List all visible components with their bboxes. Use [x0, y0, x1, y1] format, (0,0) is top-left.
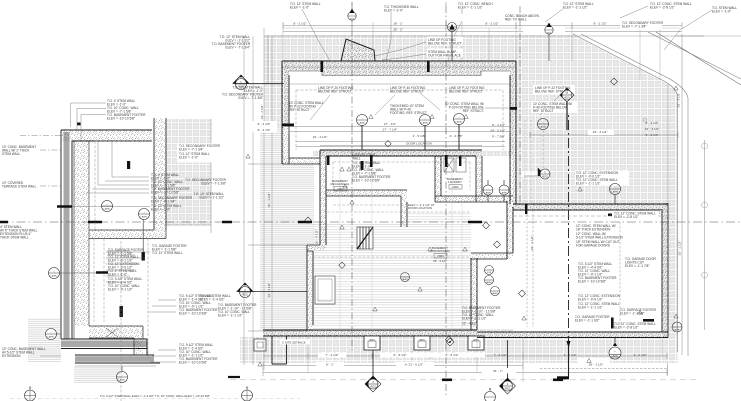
wall: garage east	[662, 203, 668, 338]
text: detail right stack 2	[179, 343, 218, 365]
text: detail secondary footer	[151, 196, 193, 212]
text: left gap blocks	[185, 178, 227, 186]
svg-text:STEM WALL BUMP-OUT FOR FIREPLA: STEM WALL BUMP-OUT FOR FIREPLACE	[428, 50, 461, 58]
wall: basement north	[320, 150, 482, 156]
wall: garage west	[507, 201, 513, 259]
svg-text:BASEMENTLAUNDRY: BASEMENTLAUNDRY	[447, 177, 463, 184]
basement north exterior dim row	[320, 145, 482, 147]
left column rotated dims	[248, 36, 307, 331]
detail: heavy leader dashes	[57, 207, 108, 273]
svg-text:4501: 4501	[564, 96, 570, 100]
sheet bottom dashed line	[10, 398, 300, 400]
grid line vertical B (x=446)	[445, 6, 447, 395]
svg-text:LINE OF P-20 FOOTINGBELOW, REF: LINE OF P-20 FOOTINGBELOW, REF. STRUCT	[318, 86, 354, 94]
svg-text:LABEL: LABEL	[48, 336, 56, 339]
svg-text:BASEMENT(UNFINISHED): BASEMENT(UNFINISHED)	[430, 246, 450, 253]
small diamonds scattered	[305, 78, 618, 343]
text: wing dims	[313, 122, 463, 146]
text: bottom dims	[316, 353, 610, 374]
extension lines left column	[244, 28, 272, 370]
bottom dimension strings	[263, 353, 667, 376]
wing interior footing lines	[289, 84, 510, 150]
text: detail right stack 1	[179, 294, 218, 316]
wall: garage step (east jog)	[471, 253, 513, 259]
svg-text:LABEL: LABEL	[486, 281, 493, 284]
svg-text:LABEL: LABEL	[419, 339, 426, 342]
wall: basement west upper	[320, 150, 326, 245]
gridline horizontal main (y=222)	[0, 214, 741, 223]
wall: wing top stem wall w/ stipple band	[282, 61, 516, 76]
detail wall: inner stipple band vertical (outer system)	[74, 141, 89, 339]
marker: bottom diamond 4/4501 x=373	[365, 350, 381, 392]
svg-text:LABEL: LABEL	[612, 191, 620, 194]
top boundary line	[264, 35, 741, 37]
label circle basement	[401, 273, 410, 282]
label circles laundry pair	[483, 180, 493, 202]
wall: wing west	[282, 61, 289, 164]
svg-text:LABEL: LABEL	[141, 216, 149, 219]
label circle right weave	[538, 119, 549, 130]
wall: laundry south / garage connector	[435, 196, 513, 202]
svg-text:29' - 3 1/2": 29' - 3 1/2"	[677, 93, 681, 108]
svg-text:29' - 3 1/4": 29' - 3 1/4"	[593, 130, 608, 134]
dashed leader circle-to-flag right side	[542, 130, 544, 168]
north circle bottom right	[485, 387, 496, 401]
svg-text:LINE OF P-22 FOOTINGBELOW, REF: LINE OF P-22 FOOTINGBELOW, REF. STRUCT	[535, 86, 571, 94]
wall: garage south	[477, 332, 668, 338]
svg-text:LABEL: LABEL	[422, 122, 430, 125]
heavy door jamb bars	[282, 61, 654, 329]
label circle detail corner	[46, 329, 62, 340]
hatch: basement floor lines	[313, 212, 471, 330]
text: garage elevations	[578, 262, 617, 284]
marker: diamond callout near fireplace	[448, 23, 457, 62]
section line vertical (x=568)	[568, 102, 570, 372]
svg-text:T.O. 9-1/2" STEM WALL ELEV =: T.O. 9-1/2" STEM WALL ELEV = -1'-4 9/2" …	[100, 394, 210, 398]
detail wall: outer conc wall gray core vertical	[61, 130, 72, 339]
faint extension lines through basement	[313, 156, 471, 330]
marker: bottom diamond 3/4501 x=507	[500, 340, 516, 394]
svg-text:LINE OF P-40 FOOTINGBELOW, REF: LINE OF P-40 FOOTINGBELOW, REF. STRUCT	[390, 86, 426, 94]
text: basement mech room	[352, 153, 375, 161]
svg-text:N: N	[29, 386, 31, 390]
north circle bottom center	[242, 386, 253, 401]
wall: wing west to basement jog	[282, 158, 320, 164]
text: far left block 3	[0, 225, 38, 240]
marker: section diamond 2/4501 top right	[560, 88, 574, 130]
svg-text:BASEMENTMECHANICAL: BASEMENTMECHANICAL	[331, 179, 350, 186]
label circle wing 3	[454, 114, 465, 151]
svg-text:16' - 4 1/2": 16' - 4 1/2"	[315, 230, 319, 245]
detail wall: jog band horizontal	[89, 230, 166, 239]
detail: leaders lower text stack	[106, 252, 176, 362]
basement interior dashed lines	[313, 162, 471, 257]
label circle wing 1	[357, 115, 368, 151]
svg-text:LABEL: LABEL	[359, 122, 367, 125]
pilaster P3 on south wall	[468, 336, 484, 350]
label circles set	[49, 114, 683, 383]
svg-text:LABEL: LABEL	[402, 278, 409, 281]
property line bottom (y=375)	[228, 377, 700, 380]
text: right weave block	[576, 171, 619, 186]
svg-text:LABEL: LABEL	[473, 339, 480, 342]
text: detail secondary footer on weave	[177, 144, 221, 163]
extension verticals through top band	[283, 22, 660, 80]
svg-text:LABEL: LABEL	[51, 275, 59, 278]
deck pier on terrace south wall	[254, 339, 266, 351]
text: basement footer block right	[462, 306, 501, 326]
diamond between pilasters	[446, 338, 454, 346]
svg-text:2003: 2003	[437, 254, 444, 258]
wall: basement east lower	[471, 258, 477, 330]
svg-text:19' - 2 1/2": 19' - 2 1/2"	[260, 105, 264, 120]
label circles garage fob stack	[485, 266, 494, 275]
marker: spot elevation dome below garage	[609, 338, 621, 360]
detail: small cross mark	[106, 328, 118, 337]
svg-text:LABEL: LABEL	[674, 329, 682, 332]
text: wing footing labels left low	[200, 294, 231, 302]
wall: window well on west wall	[315, 276, 335, 304]
svg-text:LABEL: LABEL	[540, 126, 548, 129]
svg-text:N: N	[246, 386, 248, 390]
wall: fireplace bump-out	[341, 39, 375, 61]
text: detail garage footer	[152, 244, 187, 255]
svg-text:LABEL: LABEL	[456, 121, 464, 124]
white-out: garage interior	[513, 209, 662, 333]
svg-text:LABEL: LABEL	[501, 192, 509, 195]
svg-text:8' - 4 1/4"34' - 3 1/4"9' - 7: 8' - 4 1/4"34' - 3 1/4"9' - 7 5/8"	[490, 123, 505, 139]
svg-text:32' - 1 1/2": 32' - 1 1/2"	[678, 241, 682, 256]
terrace SW wall extension below	[272, 336, 287, 364]
stair block	[357, 227, 373, 249]
svg-text:2001: 2001	[337, 187, 344, 191]
text: laundry room	[447, 177, 463, 189]
text: top-left block 2	[222, 86, 264, 101]
pilaster P1 on south wall	[364, 336, 380, 350]
svg-text:61' - 1": 61' - 1"	[493, 369, 503, 373]
faint dashed verticals in weave near garage door	[525, 120, 531, 204]
text: detail mid stack	[151, 173, 190, 195]
marker: flag at bottom-left (2/4501)	[237, 283, 307, 298]
text: setback	[280, 340, 310, 345]
tiny warning triangles	[246, 86, 678, 366]
label circle garage upper	[610, 184, 621, 205]
svg-text:N: N	[489, 387, 491, 391]
text: garage wall notes	[576, 224, 623, 248]
text: far left block 2	[2, 181, 37, 189]
marker: top flag x=549	[545, 23, 553, 62]
detail: dashed inner rect	[94, 141, 152, 401]
bottom extension verticals	[308, 336, 662, 382]
text: wing footing labels	[318, 86, 354, 94]
svg-text:26' - 4 1/2": 26' - 4 1/2"	[433, 259, 447, 263]
wall: mech room east step	[401, 196, 407, 227]
hatch: terrace horizontal lines left of plan	[260, 127, 314, 330]
text: basement footer block left	[218, 303, 257, 318]
marker: flag-left 1/4501 right side	[524, 168, 550, 179]
white-out: laundry-garage gap	[477, 156, 513, 329]
svg-text:2' SITE SETBACK: 2' SITE SETBACK	[282, 341, 306, 345]
white patches under annotations on weave	[427, 27, 629, 186]
marker: flag 1/4501 left of wing	[233, 75, 284, 90]
grid line vertical C (x=520)	[519, 6, 521, 204]
detail wall: top horizontal	[61, 130, 152, 141]
horizontal dim right (29'-3 1/4")	[530, 132, 678, 138]
text: bottom row under detail	[100, 394, 210, 398]
top secondary line	[283, 27, 680, 29]
detail wall: jog right lower	[89, 326, 143, 338]
wall: wing east	[510, 61, 516, 204]
svg-text:LABEL: LABEL	[485, 192, 493, 195]
svg-text:28' - 1 1/2": 28' - 1 1/2"	[589, 363, 604, 367]
svg-text:4501: 4501	[242, 293, 248, 297]
detail: leader lines to left texts	[20, 103, 150, 255]
white-out: wing interior	[289, 75, 510, 151]
text: garage extension	[578, 294, 621, 310]
detail wall: upper right vertical stipple band	[154, 118, 166, 230]
text: far left block 1	[2, 145, 36, 156]
svg-text:2002: 2002	[452, 185, 459, 189]
text: top annotations row	[290, 2, 321, 10]
svg-text:LABEL: LABEL	[119, 379, 127, 382]
heavy bars on bottom property line	[442, 379, 563, 382]
text: basement room tag	[430, 246, 450, 263]
white-out: left terrace zone	[244, 127, 313, 331]
detail wall: lower right vertical band	[134, 326, 143, 355]
marker: top flag x=352	[348, 9, 356, 21]
text: stair elev note	[408, 203, 435, 210]
text: garage door	[625, 257, 657, 268]
wall: laundry west partition	[435, 156, 441, 202]
svg-text:LABEL: LABEL	[492, 292, 499, 295]
text: garage bottom notes	[575, 315, 610, 323]
text: detail lower stack	[108, 248, 145, 292]
wall: mech room south partition	[326, 190, 407, 196]
label circle wing 2	[420, 115, 431, 151]
detail wall: second bottom band	[75, 355, 160, 363]
wall: basement west jog	[307, 245, 326, 251]
svg-text:4501: 4501	[505, 387, 511, 391]
text: garage stem wall on gridline	[612, 211, 658, 220]
top dimension string 1	[283, 22, 682, 32]
hatch: driveway weave (paving)	[240, 35, 678, 363]
top edge tick lines above plan	[352, 2, 446, 6]
svg-text:4501: 4501	[350, 19, 356, 21]
label circles left detail	[102, 201, 113, 212]
wing interior dim lines	[289, 123, 510, 147]
detail wall: bottom edge line	[75, 365, 156, 367]
right dimension vertical lines	[668, 34, 705, 375]
road diagonal lines top right	[573, 32, 741, 356]
svg-text:4501: 4501	[542, 175, 548, 179]
wall: basement west lower	[307, 245, 313, 331]
grid line vertical A (x=352)	[351, 2, 353, 350]
text: top dims	[293, 22, 606, 32]
wall: garage north	[513, 204, 668, 210]
text: 29-3 dims right	[593, 130, 608, 134]
wall: laundry east	[476, 156, 482, 202]
wall: basement/terrace south	[263, 330, 477, 336]
label circle garage bottom right	[672, 322, 682, 332]
marker: section line end x=568 with heavy bar	[557, 340, 571, 379]
detail heavy bars	[77, 123, 145, 318]
svg-text:LABEL: LABEL	[104, 208, 112, 211]
text: top-left block 1	[212, 35, 251, 50]
dimension circles right edge	[643, 118, 708, 278]
svg-text:LABEL: LABEL	[612, 355, 620, 358]
leader lines wing footings	[310, 93, 560, 120]
svg-text:LABEL: LABEL	[369, 339, 376, 342]
north circle bottom left	[25, 386, 36, 401]
detail hatch: terrace weave strip	[166, 119, 211, 233]
leader lines top annotations	[302, 6, 712, 61]
garage interior lines	[513, 210, 662, 327]
white-out: basement interior	[312, 156, 477, 330]
laundry appliance boxes	[444, 158, 466, 172]
svg-text:10' - 1 1/2": 10' - 1 1/2"	[267, 193, 271, 208]
svg-text:4501: 4501	[370, 385, 376, 389]
detail hatch: terrace corner	[28, 318, 120, 383]
pilaster P2 on south wall	[414, 336, 430, 350]
svg-text:LINE OF P-22 FOOTINGBELOW, REF: LINE OF P-22 FOOTINGBELOW, REF. STRUCT	[449, 86, 485, 94]
text: far left block 4	[2, 347, 61, 358]
text: detail top stack	[107, 99, 146, 121]
svg-text:ELEV = -1'-1 1/2" ATDOOR LOCAT: ELEV = -1'-1 1/2" ATDOOR LOCATION	[408, 203, 435, 210]
detail wall: outer gray core bottom L	[61, 339, 147, 355]
svg-text:16' - 4 1/2": 16' - 4 1/2"	[267, 283, 271, 298]
svg-text:FOB: FOB	[487, 272, 492, 274]
svg-text:32' - 1 1/2": 32' - 1 1/2"	[530, 236, 534, 251]
svg-text:4501: 4501	[547, 33, 553, 35]
